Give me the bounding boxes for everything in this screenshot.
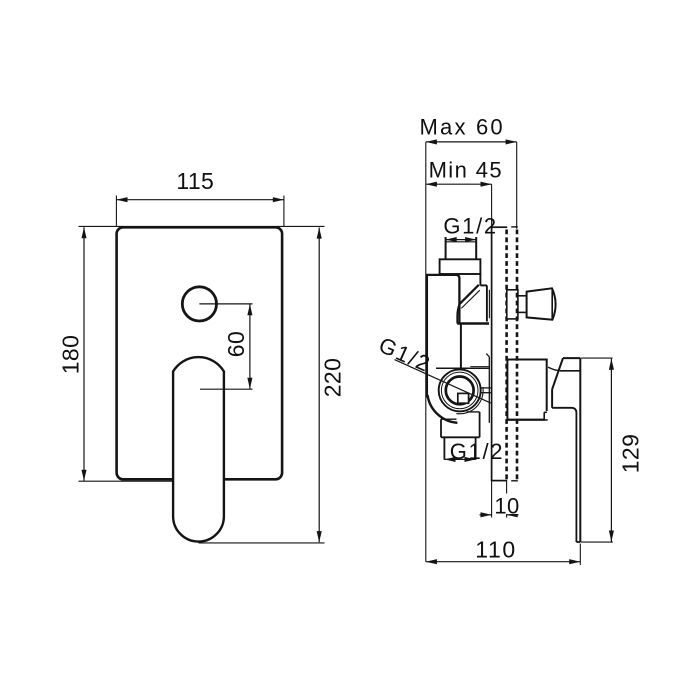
cartridge left curve <box>457 304 459 323</box>
body outline <box>427 275 460 398</box>
cartridge step H1 <box>480 284 487 286</box>
bottom fitting block top-right edge <box>467 411 480 413</box>
arrow 60 bottom <box>247 378 252 389</box>
dim Max 60 <box>426 141 517 143</box>
boss top edge <box>436 367 489 369</box>
handle front view <box>173 357 224 541</box>
arrow 115 right <box>273 197 284 202</box>
129 extension bottom <box>581 541 613 543</box>
svg-text:180: 180 <box>58 335 84 375</box>
svg-text:G1/2: G1/2 <box>443 214 498 239</box>
outlet circles <box>439 369 481 411</box>
dim Min 45 <box>426 183 492 185</box>
dim line 60 <box>249 304 251 389</box>
plate front view <box>117 227 283 479</box>
handle neck line L6 <box>560 370 580 372</box>
arrow 60 top <box>247 304 252 315</box>
arrow 220 top <box>317 228 322 239</box>
knob stem bottom line <box>518 311 526 313</box>
dashed wall line A (min) <box>505 230 508 481</box>
grip top L1 <box>563 357 580 359</box>
svg-text:Max 60: Max 60 <box>420 115 505 140</box>
bottom fitting block right edge <box>479 412 481 437</box>
dim line 220 <box>318 228 320 543</box>
extension line 10 left <box>491 481 493 518</box>
thin arc r23 <box>456 387 483 414</box>
arrow 180 bottom <box>81 470 86 481</box>
knob <box>527 288 556 319</box>
max-position top cap <box>511 226 518 228</box>
grip bottom cap L9 <box>576 541 580 543</box>
extension line 115 left <box>115 196 117 227</box>
keyway square <box>458 393 469 403</box>
cartridge diagonal D1 <box>459 285 478 304</box>
arrow 129 top <box>609 359 614 370</box>
arrow G1/2 top left <box>446 237 457 242</box>
svg-text:220: 220 <box>320 358 346 398</box>
extension / plate front face line <box>491 184 493 227</box>
boss extra line <box>470 366 489 368</box>
grip right edge L8 <box>579 358 581 542</box>
dim line 180 <box>83 227 85 481</box>
svg-text:129: 129 <box>618 434 644 474</box>
leader from circle center <box>199 303 252 305</box>
cartridge bottom <box>457 322 489 324</box>
bottom pipe G1/2 right edge <box>475 437 477 459</box>
boss big arc <box>428 395 458 423</box>
dashed wall line B (max) <box>516 230 519 481</box>
extension line 10 right upper <box>506 481 508 494</box>
arrow 10 left <box>481 512 492 517</box>
arrow Max60 left <box>426 139 437 144</box>
label 10 <box>496 494 518 514</box>
dim line 110 <box>426 561 581 563</box>
extension line bottom 220 <box>199 542 325 544</box>
bottom fitting block left edge <box>440 419 442 437</box>
left extension line (Max60/Min45/110) <box>425 142 427 562</box>
dim line 115 <box>116 199 284 201</box>
cartridge upper right edge V1 <box>479 274 481 286</box>
plate front face line (solid, below min45 ext) <box>491 227 493 481</box>
arrow 10 right <box>507 512 518 517</box>
leader on handle <box>200 388 253 390</box>
plate bottom cap <box>492 480 508 482</box>
outlet stub bottom line <box>481 392 492 394</box>
arrow 115 left <box>116 197 127 202</box>
base bottom-right notch <box>544 411 548 419</box>
arrow G1/2 bottom right <box>465 457 476 462</box>
right extension Max 60 <box>516 142 518 229</box>
vertical near plate top slant <box>486 354 489 357</box>
RIGHT VIEW body parts <box>395 227 613 565</box>
arrow 129 bottom <box>609 531 614 542</box>
handle neck diagonal L2 <box>552 358 563 389</box>
body right edge lower <box>460 324 462 369</box>
leader G1/2 left <box>395 360 491 404</box>
dim G1/2 top <box>446 239 477 241</box>
labels left view <box>58 168 346 397</box>
handle step L4 <box>552 408 576 542</box>
labels right view <box>420 115 505 239</box>
cartridge flange right V2 <box>486 285 488 321</box>
arrow 110 right <box>569 559 580 564</box>
circle on plate <box>182 287 216 321</box>
svg-text:G1/2: G1/2 <box>450 439 505 464</box>
svg-text:60: 60 <box>223 331 249 357</box>
dim line 10 right <box>507 514 519 516</box>
svg-text:10: 10 <box>494 494 519 519</box>
dim line 10 left <box>480 514 492 516</box>
top pipe G1/2 left edge <box>445 237 447 259</box>
arrowheads right view lower <box>426 359 614 565</box>
dim line G1/2 bottom <box>444 458 475 460</box>
extension line top shared 180/220 <box>79 225 325 227</box>
cartridge diagonal D2 <box>461 290 480 308</box>
extension line 10 right lower <box>506 513 508 518</box>
bottom pipe G1/2 left edge <box>443 437 445 459</box>
dim line 129 <box>610 359 612 542</box>
arrow 180 top <box>81 227 86 238</box>
arrow Min45 right <box>481 182 492 187</box>
handle base <box>507 360 546 420</box>
arrow Max60 right <box>506 139 517 144</box>
arrow 220 bottom <box>317 531 322 542</box>
max-position bottom cap <box>511 480 518 482</box>
top block <box>440 259 481 274</box>
bottom fitting block top-left edge <box>441 418 457 420</box>
bottom fitting block bottom edge <box>441 436 480 438</box>
labels right view lower <box>375 332 643 562</box>
svg-text:115: 115 <box>176 168 214 194</box>
svg-text:Min 45: Min 45 <box>429 158 503 183</box>
plate top cap <box>492 226 508 228</box>
knob support block <box>507 290 518 319</box>
cartridge nut face V3 <box>488 290 490 319</box>
arrow G1/2 bottom left <box>444 457 455 462</box>
knob stem top line <box>518 295 526 297</box>
knob face line <box>551 288 553 319</box>
arrow Min45 left <box>426 182 437 187</box>
top pipe G1/2 top edge <box>446 241 477 243</box>
extension line 115 right <box>283 196 285 227</box>
handle neck left edge L3 <box>551 389 553 407</box>
arrow G1/2 top right <box>465 237 476 242</box>
handle neck curve L7 <box>548 367 560 371</box>
extension line bottom-left 180 <box>79 480 174 482</box>
129 extension top <box>581 357 613 359</box>
110 right extension <box>579 544 581 566</box>
arrowheads left view <box>81 197 321 542</box>
svg-text:110: 110 <box>475 537 516 563</box>
outlet stub top line <box>481 387 492 389</box>
vertical near plate <box>488 357 490 423</box>
arrow 110 left <box>426 559 437 564</box>
top pipe G1/2 right edge <box>475 237 477 259</box>
dimension lines right view <box>426 142 517 240</box>
